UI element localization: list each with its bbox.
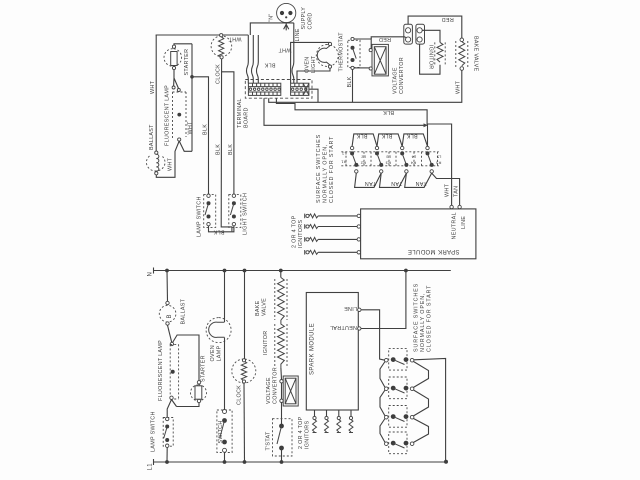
svg-text:CONVERTOR: CONVERTOR [272, 367, 278, 404]
svg-text:CONVERTOR: CONVERTOR [399, 57, 405, 94]
svg-text:BLK: BLK [347, 76, 353, 87]
svg-text:SWITCH: SWITCH [218, 420, 224, 443]
wire bridge top 2-3 BLK [377, 134, 402, 146]
wire clock riser center [221, 59, 232, 232]
svg-text:CLOSED FOR START: CLOSED FOR START [329, 136, 335, 203]
terminal board TB outline [245, 80, 312, 99]
wire line riser to board [292, 23, 294, 83]
wire bridge bottom 3-4 TAN [405, 173, 432, 187]
svg-text:L5: L5 [436, 155, 441, 160]
wire lamp switch to L1 [166, 447, 168, 462]
svg-text:WHT: WHT [455, 80, 461, 94]
wire NEUTRAL to N rail [361, 271, 406, 329]
wire switch to L1 [224, 452, 226, 462]
svg-text:BLK: BLK [216, 144, 222, 155]
svg-text:IGNITOR: IGNITOR [263, 331, 269, 355]
svg-text:CORD: CORD [308, 12, 314, 29]
spark module SM2 bottom box [306, 293, 358, 411]
ballast B2 bottom [159, 301, 176, 325]
wire left bump 1-2 [380, 362, 385, 388]
svg-text:FLUORESCENT LAMP: FLUORESCENT LAMP [164, 85, 170, 146]
spark bottom pin 1 [313, 410, 317, 433]
svg-text:R2: R2 [360, 161, 366, 166]
bake valve BV1 top [456, 38, 468, 70]
wire switch bottom bus [209, 226, 234, 232]
svg-text:"N": "N" [268, 13, 274, 22]
svg-text:RED: RED [441, 16, 453, 22]
voltage convertor VC1 top [369, 44, 388, 76]
svg-text:BLK: BLK [203, 124, 209, 135]
starter ST1 top [164, 45, 182, 69]
node N-neutral [404, 269, 408, 273]
wire left bump 3-4 [380, 419, 385, 443]
svg-text:LIGHT: LIGHT [311, 55, 317, 73]
wire block2 to ignitor bottom [420, 44, 440, 74]
svg-text:SURFACE SWITCHES: SURFACE SWITCHES [413, 283, 419, 352]
svg-text:CLOSED FOR START: CLOSED FOR START [426, 285, 432, 352]
wire right bump 1-2 [414, 362, 429, 388]
wire bridge top 3-4 BLK [402, 134, 427, 146]
ignitor R2 bottom [275, 320, 287, 368]
top ignitor symbol 2 [305, 224, 357, 229]
wire right bump 2-3 [414, 390, 429, 416]
svg-text:BAKE: BAKE [255, 300, 261, 316]
surface switch SS1 bottom [385, 348, 414, 370]
wire clock to L1 [243, 383, 246, 462]
wire lamp pin to right riser [179, 141, 192, 151]
clock M2 bottom [232, 359, 256, 383]
spark module left pins [357, 214, 360, 217]
thermostat TS2 bottom [273, 419, 293, 456]
wire starter to lamp pins [174, 70, 179, 89]
svg-text:RED: RED [379, 36, 391, 42]
svg-text:L1: L1 [148, 463, 154, 471]
ballast B1 coil [146, 151, 165, 175]
node N-bake [279, 269, 283, 273]
svg-text:IGNITOR: IGNITOR [428, 45, 434, 69]
fluorescent lamp FL2 bottom [170, 344, 178, 399]
wire board exit right [309, 89, 318, 102]
spark bottom pin 4 [349, 410, 353, 433]
lamp bottom pin [170, 396, 173, 399]
svg-text:SPARK MODULE: SPARK MODULE [310, 323, 316, 375]
wire board to spark module run [276, 98, 451, 205]
svg-text:R4: R4 [410, 161, 416, 166]
surface switch SW2 top [371, 146, 389, 173]
svg-text:NORMALLY OPEN,: NORMALLY OPEN, [420, 293, 426, 352]
svg-text:IGNITORS: IGNITORS [305, 421, 311, 449]
wire switch output to L1 [414, 359, 446, 462]
wire oven light top run [291, 42, 330, 83]
svg-text:TAN: TAN [415, 180, 426, 186]
starter ST2 bottom [191, 381, 207, 403]
svg-text:BALLAST: BALLAST [149, 124, 155, 150]
wire red top run [408, 16, 462, 38]
svg-text:OVEN: OVEN [210, 345, 216, 361]
svg-text:BLK: BLK [406, 133, 417, 139]
wire VC to tstat [281, 403, 283, 425]
wire LINE to switches [361, 310, 385, 360]
svg-text:VALVE: VALVE [262, 298, 268, 316]
wire block2 to ignitor top [422, 30, 440, 42]
voltage convertor VC2 bottom [280, 376, 298, 406]
connector block CB1 [404, 24, 413, 44]
svg-text:LAMP: LAMP [216, 346, 222, 362]
svg-text:LIGHT SWITCH: LIGHT SWITCH [242, 193, 248, 235]
wire thermostat top to VC [354, 39, 371, 49]
terminal strip left [248, 83, 280, 95]
svg-text:SUPPLY: SUPPLY [301, 7, 307, 30]
wire N to ballast [166, 271, 169, 302]
surface switch SS4 bottom [385, 432, 414, 454]
svg-text:N: N [148, 272, 154, 277]
svg-text:STARTER: STARTER [201, 355, 207, 382]
svg-text:BLK: BLK [356, 133, 367, 139]
svg-text:R3: R3 [385, 161, 391, 166]
wire thermostat to VC bottom [354, 67, 369, 69]
node N-ovenlamp [223, 269, 227, 273]
wire light switch riser [222, 72, 234, 196]
spark LINE terminal [358, 308, 361, 311]
svg-text:WHT: WHT [168, 157, 174, 171]
spark bottom pin 2 [325, 410, 329, 433]
bake valve BV2 bottom [275, 278, 287, 321]
svg-text:CLOCK: CLOCK [216, 64, 222, 84]
svg-text:NORMALLY OPEN,: NORMALLY OPEN, [322, 144, 328, 203]
lamp pins top pair [172, 86, 175, 89]
wire N to clock [244, 271, 246, 360]
lamp pin top bottomdiag [170, 342, 173, 345]
wire thermostat bottom down [352, 70, 354, 103]
svg-text:B: B [167, 314, 173, 318]
wire right bump 3-4 [414, 419, 429, 443]
svg-text:SPARK MODULE: SPARK MODULE [407, 248, 459, 254]
wire sw4 to spark tan [432, 173, 460, 205]
svg-text:BAKE VALVE: BAKE VALVE [472, 36, 478, 72]
lamp pin bottom [178, 138, 181, 141]
node L1-switch [223, 460, 227, 464]
top ignitor symbol 1 [305, 214, 357, 219]
BOTTOM_SCHEMATIC [148, 268, 451, 471]
terminal strip right [291, 83, 309, 95]
svg-text:2 OR 4 TOP: 2 OR 4 TOP [298, 416, 304, 449]
surface switch SS3 bottom [385, 406, 414, 428]
supply plug P1 [277, 3, 296, 30]
wire bridge bottom 2-3 TAN [380, 173, 407, 187]
wire right riser lamp [191, 44, 193, 152]
svg-text:WHT: WHT [228, 35, 242, 41]
starter frame [174, 44, 192, 45]
svg-text:VOLTAGE: VOLTAGE [266, 377, 272, 404]
oven lamp DS2 bottom [206, 318, 231, 343]
svg-text:BOARD: BOARD [244, 107, 250, 128]
connector block CB2 [416, 24, 425, 44]
wire lamp pin to starter [173, 335, 200, 381]
svg-text:THERMOSTAT: THERMOSTAT [339, 32, 345, 72]
wire plug run [250, 23, 293, 35]
svg-text:L2: L2 [361, 155, 366, 160]
wire ballast blade to lamp pin [168, 325, 172, 342]
node L1-switchout [444, 460, 448, 464]
oven light switch S4 bottom [217, 410, 232, 453]
wire bundle left 3 [247, 35, 249, 83]
wire bridge bottom 1-2 TAN [355, 173, 382, 187]
wire N to bake valve [280, 271, 282, 278]
svg-text:BLK: BLK [213, 229, 224, 235]
svg-text:NEUTRAL: NEUTRAL [451, 212, 457, 239]
wire oven light bottom run [297, 68, 330, 83]
wire bridge top 1-2 BLK [352, 134, 377, 146]
node junction riser [190, 75, 194, 79]
wire bake valve bottom long WHT [269, 70, 462, 102]
node N-fluorescent [165, 269, 169, 273]
svg-text:BLK: BLK [228, 144, 234, 155]
node L1-tstat [280, 460, 284, 464]
svg-text:CLOCK: CLOCK [236, 385, 242, 405]
svg-text:WHT: WHT [445, 183, 451, 197]
svg-text:TAN: TAN [391, 180, 402, 186]
wire ignitor to VC [280, 368, 283, 380]
wire top left run [156, 34, 249, 36]
svg-text:BLK: BLK [383, 109, 394, 115]
spark NEUTRAL terminal [358, 327, 361, 330]
surface switch dashed band [341, 152, 439, 166]
svg-text:WHT: WHT [150, 80, 156, 94]
svg-text:OVEN: OVEN [305, 57, 311, 73]
surface switch SW3 top [396, 146, 414, 173]
svg-text:LINE: LINE [344, 305, 357, 311]
wire left bump 2-3 [380, 390, 385, 416]
node N-clock [243, 269, 247, 273]
svg-text:BALLAST: BALLAST [180, 298, 186, 324]
svg-text:NEUTRAL: NEUTRAL [330, 324, 357, 330]
wire lamp pin blades [167, 400, 176, 418]
light switch S2 top [229, 194, 241, 227]
svg-text:IGNITORS: IGNITORS [298, 220, 304, 248]
thermostat TS1 top [348, 37, 360, 69]
surface switch SS2 bottom [385, 377, 414, 399]
wire tstat to L1 [281, 448, 283, 462]
top ignitor symbol 3 [305, 237, 357, 242]
wire feed surface switch SW4 [427, 124, 429, 146]
wire left vertical WHT [155, 35, 157, 152]
svg-text:R5: R5 [435, 161, 441, 166]
svg-text:WHT: WHT [278, 47, 292, 53]
TOP_DIAGRAM [146, 3, 478, 258]
wire ballast to lamp [156, 141, 179, 177]
fluorescent lamp FL1 dashed tube [173, 92, 187, 139]
spark module SM1 top box [361, 205, 476, 258]
wire long blk low arrow [264, 98, 424, 125]
lamp switch S3 bottom [163, 417, 173, 447]
lamp switch S1 top [204, 194, 216, 227]
svg-text:BLK: BLK [264, 62, 275, 68]
surface switch SW4 top [422, 146, 438, 173]
svg-text:TAN: TAN [453, 186, 459, 197]
svg-text:LAMP SWITCH: LAMP SWITCH [196, 196, 202, 237]
wire N to oven lamp [224, 271, 226, 323]
svg-text:BLK: BLK [381, 133, 392, 139]
svg-text:LINE: LINE [295, 28, 301, 41]
svg-text:LAMP SWITCH: LAMP SWITCH [151, 411, 157, 452]
svg-text:TAN: TAN [365, 180, 376, 186]
ignitor R1 top [435, 42, 445, 64]
svg-text:T'STAT: T'STAT [265, 431, 271, 451]
svg-text:STARTER: STARTER [184, 49, 190, 76]
svg-text:LINE: LINE [461, 216, 467, 229]
svg-text:SURFACE SWITCHES: SURFACE SWITCHES [316, 134, 322, 203]
svg-text:L3: L3 [386, 155, 391, 160]
spark bottom pin 3 [337, 410, 341, 433]
rail L1 [153, 461, 447, 463]
svg-text:2 OR 4 TOP: 2 OR 4 TOP [291, 215, 297, 248]
top ignitor symbol 4 [305, 250, 357, 255]
surface switch SW1 top [346, 146, 364, 173]
clock M1 top [211, 34, 232, 59]
svg-text:VOLTAGE: VOLTAGE [393, 67, 399, 94]
node L1-clock [243, 460, 247, 464]
svg-text:FLUORESCENT LAMP: FLUORESCENT LAMP [158, 340, 164, 401]
wire starter bottom to lamp [177, 403, 200, 407]
svg-text:TERMINAL: TERMINAL [237, 98, 243, 128]
svg-text:WHT: WHT [188, 121, 194, 135]
node L1-lampswitch [165, 460, 169, 464]
oven light DS1 top [316, 42, 338, 68]
rail N [153, 270, 451, 272]
svg-text:L4: L4 [411, 155, 416, 160]
wire junction to lamp switch riser [192, 77, 209, 196]
wire oven lamp to switch [224, 338, 226, 410]
